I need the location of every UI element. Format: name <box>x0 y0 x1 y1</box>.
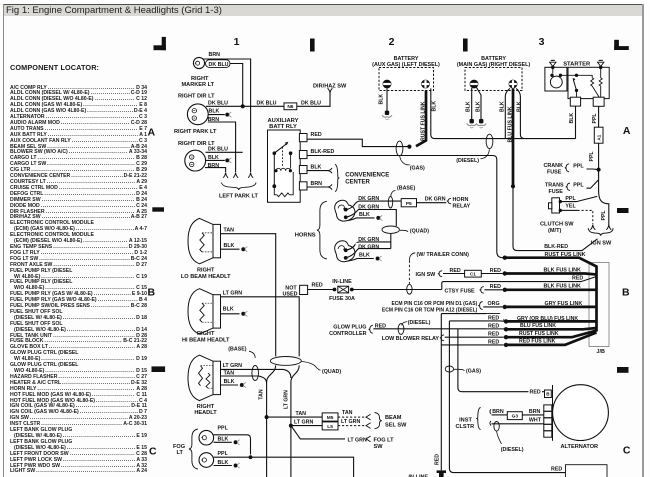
svg-text:RED: RED <box>434 454 440 465</box>
grid row label A right <box>623 125 631 137</box>
svg-text:RELAY: RELAY <box>453 203 471 209</box>
fusible link RUST FUS LINK row <box>503 252 597 267</box>
label (W/ TRAILER CONN) <box>409 252 469 261</box>
wire trailer conn drop <box>408 261 410 285</box>
svg-text:N6: N6 <box>287 104 293 110</box>
svg-text:CTSY FUSE: CTSY FUSE <box>445 289 476 295</box>
svg-text:BLK: BLK <box>359 253 370 259</box>
connector P5 <box>401 199 416 208</box>
brace HORNS <box>317 201 327 259</box>
label RED at alternator B <box>529 388 543 395</box>
svg-text:BRN: BRN <box>529 409 541 415</box>
svg-text:L5: L5 <box>327 424 333 430</box>
svg-text:DK GRN: DK GRN <box>358 244 379 250</box>
bulb RIGHT PARK LT / DIR LT (upper) <box>187 104 208 125</box>
wire BLK battery2 positive <box>431 88 576 138</box>
connector oval (DIESEL) on glow plug wire <box>398 320 430 335</box>
svg-text:DK GRN: DK GRN <box>425 197 446 203</box>
svg-text:INST: INST <box>459 418 472 424</box>
lamp RIGHT MARKER LT <box>182 57 215 88</box>
svg-text:DK BLU: DK BLU <box>208 147 228 153</box>
bus bar in J/B <box>595 266 598 332</box>
grid column label 1 <box>234 36 240 48</box>
wire DK GRN horn upper row1 <box>346 196 402 210</box>
svg-text:ECM PIN C16 OR PCM PIN D1 (GAS: ECM PIN C16 OR PCM PIN D1 (GAS) <box>391 301 477 307</box>
svg-text:GLOW PLUG: GLOW PLUG <box>333 325 366 331</box>
label CONVENIENCE CENTER <box>345 173 389 186</box>
label+wire TRANS FUSE <box>545 180 598 195</box>
svg-text:IN-LINE: IN-LINE <box>332 279 352 285</box>
svg-text:WHT: WHT <box>529 417 542 423</box>
svg-text:BLK: BLK <box>465 101 471 112</box>
svg-text:(DIESEL): (DIESEL) <box>456 158 479 164</box>
fusible link BLU FUS LINK row <box>486 322 597 331</box>
wire DK BLU from N6 to DIR/HAZ SW <box>297 88 333 106</box>
node junction RED / RUST FUS LINK <box>407 145 411 149</box>
grid tick mark left 2 <box>152 366 166 372</box>
brace LEFT PARK LT <box>222 183 257 191</box>
svg-text:LT GRN: LT GRN <box>223 291 242 297</box>
wire DK BLU of lower park bulb <box>206 147 243 153</box>
label BEAM SEL SW <box>385 415 407 428</box>
svg-text:G3: G3 <box>512 413 519 419</box>
wire BLK of upper park bulb <box>208 108 231 117</box>
starter solenoid box <box>545 66 609 107</box>
connector oval (DIESEL) on WHT wire <box>494 422 524 454</box>
fusible link RUST FUS LINK (battery to RED) <box>416 91 427 147</box>
svg-text:GRY FUS LINK: GRY FUS LINK <box>545 301 583 307</box>
svg-text:A: A <box>148 127 156 139</box>
svg-text:BLK: BLK <box>311 164 322 170</box>
svg-text:BLK: BLK <box>432 101 438 112</box>
svg-text:CLSTR: CLSTR <box>455 424 474 430</box>
svg-text:AUXILIARY: AUXILIARY <box>267 118 298 124</box>
wire DK GRN to horn relay <box>417 197 452 204</box>
svg-text:A1: A1 <box>597 134 603 140</box>
wire vertical through (GAS) oval to bottom box <box>449 321 565 473</box>
svg-text:RED: RED <box>311 132 322 138</box>
svg-text:IGN SW: IGN SW <box>416 272 437 278</box>
wire RED short (row6 feeder) <box>449 320 504 322</box>
svg-text:RIGHT DIR LT: RIGHT DIR LT <box>178 94 215 100</box>
fuse IN-LINE (bottom) <box>409 470 447 477</box>
svg-text:LT GRN: LT GRN <box>348 437 367 443</box>
grid corner mark top-left <box>154 37 166 50</box>
svg-text:BLU FUS LINK: BLU FUS LINK <box>507 106 513 142</box>
svg-text:BLK: BLK <box>516 101 522 112</box>
svg-text:A: A <box>623 125 631 137</box>
connector A1 <box>594 127 603 143</box>
svg-text:RIGHT: RIGHT <box>197 268 215 274</box>
wire vertical to in-line fuse (RED) <box>434 314 441 471</box>
label HORNS <box>295 233 316 239</box>
wire BLK-RED from aux batt rly to junction block <box>307 149 504 258</box>
svg-text:(GAS): (GAS) <box>466 368 481 374</box>
grid column label 2 <box>389 36 395 48</box>
svg-text:SEL SW: SEL SW <box>385 423 407 429</box>
svg-text:BLK-RED: BLK-RED <box>544 244 568 250</box>
wire DK GRN horn lower row2 <box>346 243 391 258</box>
wire RED row to GRY (OR BLU) FUS LINK <box>441 314 504 321</box>
svg-text:B: B <box>622 287 630 299</box>
label INST CLSTR <box>455 418 474 430</box>
svg-text:PPL: PPL <box>218 426 229 432</box>
connector oval (GAS) on RED wire <box>396 141 425 171</box>
svg-text:FOG: FOG <box>173 444 185 450</box>
svg-text:PPL: PPL <box>592 113 598 124</box>
label+wire CRANK FUSE <box>544 163 599 175</box>
svg-text:BLK: BLK <box>209 108 220 114</box>
svg-text:BRN: BRN <box>209 52 221 58</box>
svg-text:LT GRN: LT GRN <box>284 390 290 409</box>
svg-text:BLK: BLK <box>224 379 235 385</box>
label RIGHT DIR LT (lower) <box>178 141 215 147</box>
svg-text:FUSE: FUSE <box>547 170 562 176</box>
svg-text:ALTERNATOR: ALTERNATOR <box>561 444 599 450</box>
wire TAN trunk to bottom <box>259 365 276 477</box>
svg-text:C1: C1 <box>470 272 476 278</box>
ground battery3 a <box>467 119 477 128</box>
headlamp RIGHT HEADLT (dual) <box>188 355 221 416</box>
svg-text:BLU FUS LINK: BLU FUS LINK <box>520 323 556 329</box>
svg-text:DK BLU: DK BLU <box>257 101 277 107</box>
svg-text:BEAM: BEAM <box>385 415 402 421</box>
label RIGHT DIR LT (upper) <box>178 94 215 100</box>
svg-text:RED: RED <box>488 316 499 322</box>
wire PPL below A1 <box>589 143 609 224</box>
label IGN SW (top right) <box>591 241 612 247</box>
svg-text:LT: LT <box>177 450 184 456</box>
svg-text:TAN: TAN <box>224 228 235 234</box>
svg-text:(W/ TRAILER CONN): (W/ TRAILER CONN) <box>417 252 470 258</box>
svg-text:BLK: BLK <box>223 307 234 313</box>
fusible link RED FUS LINK row <box>486 333 597 348</box>
junction block J/B outline <box>589 263 609 356</box>
svg-text:TAN: TAN <box>296 411 307 417</box>
svg-text:PPL: PPL <box>573 163 584 169</box>
connector oval (QUAD) lower <box>270 357 341 375</box>
svg-text:3: 3 <box>539 36 545 48</box>
wire RED from fuse to J/B riser <box>352 289 442 291</box>
wire BLK fog upper <box>214 436 240 445</box>
connector oval (DIESEL) on BLK wire <box>456 134 493 164</box>
svg-text:BLK: BLK <box>359 212 370 218</box>
connector oval (BASE) lower <box>252 366 259 381</box>
svg-text:BLK: BLK <box>218 436 229 442</box>
ground battery3 b <box>476 119 486 128</box>
label ALTERNATOR <box>561 444 599 450</box>
wire DK GRN horn upper row2 <box>346 204 397 226</box>
svg-text:BATTERY: BATTERY <box>481 56 506 62</box>
svg-text:GRY (OR BLU) FUS LINK: GRY (OR BLU) FUS LINK <box>517 316 578 322</box>
svg-text:RIGHT: RIGHT <box>197 404 215 410</box>
wire LT GRN to connector L5 <box>291 419 371 430</box>
label FOG LT SW <box>374 438 395 450</box>
wire GLOW PLUG CONTROLLER RED feeder <box>329 324 506 338</box>
label FOG LT <box>173 444 185 456</box>
svg-text:RIGHT PARK LT: RIGHT PARK LT <box>174 129 217 135</box>
svg-text:RED: RED <box>488 332 499 338</box>
svg-text:C: C <box>623 445 631 457</box>
connector N6 <box>257 101 322 111</box>
svg-text:(GAS): (GAS) <box>410 165 425 171</box>
svg-text:PPL: PPL <box>573 183 584 189</box>
svg-text:LEFT PARK LT: LEFT PARK LT <box>219 193 259 199</box>
wire BLK of lower park bulb <box>206 155 232 163</box>
svg-text:TRANS: TRANS <box>545 183 564 189</box>
wire BLK from starter <box>569 106 575 139</box>
grid tick mark left 1 <box>152 207 164 211</box>
svg-text:LO BEAM HEADLT: LO BEAM HEADLT <box>181 274 231 280</box>
connector oval + wire DK BLU from marker lamp <box>206 60 243 107</box>
svg-text:STARTER: STARTER <box>563 61 591 67</box>
svg-text:MARKER LT: MARKER LT <box>182 82 215 88</box>
wire RED to in-line fuse <box>308 283 333 290</box>
svg-text:BATTERY: BATTERY <box>394 56 419 62</box>
wire DK BLU from right dir lt to junction and N6 <box>206 101 284 107</box>
brace IGN SW <box>588 228 613 236</box>
wire TAN from lo beam <box>221 228 276 357</box>
svg-text:CENTER: CENTER <box>345 180 370 186</box>
svg-text:RED FUS LINK: RED FUS LINK <box>519 339 556 345</box>
grid row label C right <box>623 445 631 457</box>
svg-text:B: B <box>148 287 156 299</box>
wire LT GRN to FOG LT SW <box>291 426 371 444</box>
wire RED row 8 feeder <box>441 344 504 346</box>
grid row label B left <box>148 287 156 299</box>
connector fork to IGN SW left <box>590 225 595 230</box>
svg-text:BATT RLY: BATT RLY <box>269 124 297 130</box>
ground battery2 <box>382 111 392 120</box>
headlamp RIGHT HI BEAM HEADLT <box>182 289 230 344</box>
svg-text:LT GRN: LT GRN <box>341 419 360 425</box>
svg-text:LT GRN: LT GRN <box>294 419 313 425</box>
switch CLUTCH SW (M/T) <box>540 196 597 234</box>
connector oval (QUAD) on horn wire <box>382 226 429 235</box>
terminal B of alternator <box>545 390 552 398</box>
svg-text:2: 2 <box>389 36 395 48</box>
svg-text:HORNS: HORNS <box>295 233 316 239</box>
fusible link BLK FUS LINK row (IGN SW) <box>503 267 597 275</box>
relay AUXILIARY BATT RLY <box>267 118 307 203</box>
svg-text:RED: RED <box>488 324 499 330</box>
fog lamp lower <box>199 453 214 468</box>
svg-text:RIGHT: RIGHT <box>197 331 215 337</box>
connector oval (BASE) on horn wire <box>388 185 415 208</box>
fuse IN-LINE FUSE 30A <box>329 279 355 302</box>
svg-text:(DIESEL): (DIESEL) <box>408 320 431 326</box>
grid column label 3 <box>539 36 545 48</box>
node fog PPL junction <box>249 455 253 459</box>
svg-text:M5: M5 <box>327 415 334 421</box>
node PPL junction <box>597 168 601 172</box>
label STARTER <box>563 61 591 67</box>
svg-text:BLK: BLK <box>499 101 505 112</box>
svg-text:BLK-RED: BLK-RED <box>311 149 335 155</box>
wire DK GRN horn lower row1 <box>346 235 391 250</box>
grid corner mark top-right <box>614 40 629 50</box>
grid tick mark right 2 <box>617 367 629 373</box>
svg-text:NOT: NOT <box>285 286 297 292</box>
svg-text:TAN: TAN <box>259 389 265 400</box>
fog lamp upper <box>199 430 214 445</box>
svg-text:HI BEAM HEADLT: HI BEAM HEADLT <box>182 337 230 343</box>
wire BLK from aux batt rly to convenience center <box>307 164 332 173</box>
wire BRN through connector G3 <box>490 409 544 420</box>
junction box (bottom right) <box>566 465 608 477</box>
svg-text:CLUTCH SW: CLUTCH SW <box>540 222 574 228</box>
svg-text:BLK: BLK <box>224 243 235 249</box>
svg-text:RED: RED <box>312 283 323 289</box>
wire BLK horn upper <box>348 212 382 221</box>
svg-text:SW: SW <box>374 444 384 450</box>
power feed arrow left <box>550 60 556 66</box>
svg-text:BLK FUS LINK: BLK FUS LINK <box>544 284 582 290</box>
wire RED from aux batt rly <box>307 132 408 147</box>
label HORN RELAY <box>453 197 471 209</box>
connector oval (GAS) lower <box>445 366 481 374</box>
svg-text:ECM PIN C16 OR TCM PIN A12 (DI: ECM PIN C16 OR TCM PIN A12 (DIESEL) <box>382 307 478 313</box>
label NOT USED + terminal <box>283 285 308 297</box>
svg-text:RUST FUS LINK: RUST FUS LINK <box>519 331 559 337</box>
node end of BLU FUS LINK <box>511 184 515 188</box>
svg-text:DK BLU: DK BLU <box>209 62 229 68</box>
wire LOW BLOWER RELAY feeder <box>382 335 504 342</box>
svg-text:BRN: BRN <box>492 409 504 415</box>
wire BLK from right headlt <box>220 379 246 388</box>
bulb RIGHT PARK LT / DIR LT (lower) <box>185 150 206 171</box>
svg-text:LOW BLOWER RELAY: LOW BLOWER RELAY <box>382 336 440 342</box>
svg-text:FUSE: FUSE <box>549 189 564 195</box>
svg-text:FUSE 30A: FUSE 30A <box>329 296 355 302</box>
grid row label A left <box>148 127 156 139</box>
svg-text:RED: RED <box>450 268 461 274</box>
svg-text:P5: P5 <box>406 201 412 207</box>
label (BASE) lower <box>228 347 255 358</box>
grid tick mark top 1 <box>310 39 315 52</box>
svg-text:HORN: HORN <box>453 197 469 203</box>
wire BLK battery3 positive right <box>516 88 524 138</box>
wire BLK-RED continuation to IGN SW <box>513 186 598 250</box>
svg-text:PPL: PPL <box>589 151 595 162</box>
switch IGN SW feed with connector C1 <box>416 268 503 278</box>
svg-text:PPL: PPL <box>218 451 229 457</box>
wire ORG from ECM <box>382 301 503 314</box>
brace BEAM SEL SW <box>375 413 382 429</box>
svg-text:(M/T): (M/T) <box>548 228 561 234</box>
svg-text:TAN: TAN <box>342 410 353 416</box>
svg-text:ORG: ORG <box>488 301 500 307</box>
svg-text:DIR/HAZ SW: DIR/HAZ SW <box>313 83 347 89</box>
svg-text:FOG LT: FOG LT <box>374 438 395 444</box>
wire BLK battery3 negative 1 <box>465 88 471 120</box>
wire BRN of upper park bulb <box>208 117 236 172</box>
wire PPL fog upper <box>214 426 251 455</box>
connector forks to LEFT PARK LT <box>223 173 253 178</box>
svg-text:RUST FUS LINK: RUST FUS LINK <box>545 252 586 258</box>
grid row label B right <box>622 287 630 299</box>
label RED at bottom right box <box>551 467 562 473</box>
wire BRN of lower park bulb <box>205 163 226 172</box>
alternator <box>553 385 609 441</box>
svg-text:RED: RED <box>530 390 541 396</box>
svg-text:(BASE): (BASE) <box>228 347 246 353</box>
wire BLK from hi beam <box>221 307 248 317</box>
svg-text:RED: RED <box>490 284 501 290</box>
wire PPL fog lower to bottom <box>214 451 354 477</box>
svg-text:RIGHT: RIGHT <box>191 76 209 82</box>
wire TAN from right headlt <box>220 371 267 383</box>
svg-text:HEADLT: HEADLT <box>194 410 217 416</box>
wire TAN to connector M5 <box>267 410 371 421</box>
svg-text:(QUAD): (QUAD) <box>322 369 341 375</box>
wire BLK from lo beam <box>221 243 248 252</box>
svg-text:BLK: BLK <box>569 113 575 124</box>
label PPL on ign feed <box>601 210 607 221</box>
svg-text:RED: RED <box>490 268 501 274</box>
node TAN junction <box>265 415 269 419</box>
svg-text:YEL: YEL <box>565 204 576 210</box>
svg-text:BLK: BLK <box>218 460 229 466</box>
brace INST CLSTR <box>476 408 480 430</box>
wire BLK battery2 negative to ground <box>378 88 387 111</box>
wire BRN from aux batt rly to convenience center <box>307 181 332 190</box>
horn lower <box>335 241 355 262</box>
svg-text:IGN SW: IGN SW <box>591 241 612 247</box>
label RIGHT PARK LT (upper) <box>174 129 217 135</box>
svg-text:RUST FUS LINK: RUST FUS LINK <box>421 101 427 141</box>
battery 3 (MAIN GAS)(RIGHT DIESEL) <box>457 56 531 91</box>
headlamp RIGHT LO BEAM HEADLT <box>181 218 231 280</box>
wire WHT to alternator <box>490 417 544 425</box>
wire BLK fog lower <box>214 460 240 468</box>
svg-text:CRANK: CRANK <box>544 163 564 169</box>
svg-text:(BASE): (BASE) <box>397 185 415 191</box>
svg-text:BLK FUS LINK: BLK FUS LINK <box>544 267 582 273</box>
connector fork to IGN SW right <box>606 225 611 230</box>
wire RED (in-line fuse to J/B) <box>442 276 597 290</box>
fusible link BLU FUS LINK from battery3 <box>507 88 513 186</box>
svg-text:BRN: BRN <box>311 181 323 187</box>
svg-text:(QUAD): (QUAD) <box>410 229 429 235</box>
wire vertical to alternator B <box>458 329 545 392</box>
terminal stack of alternator <box>544 405 552 437</box>
svg-text:PPL: PPL <box>601 210 607 221</box>
battery 2 (AUX GAS)(LEFT DIESEL) <box>372 56 440 91</box>
svg-text:J/B: J/B <box>597 349 605 355</box>
grid tick mark right 1 <box>617 208 629 213</box>
horn upper <box>335 200 355 221</box>
svg-text:BLK: BLK <box>378 94 384 105</box>
wire QUAD oval to lower horn rows <box>390 233 392 248</box>
node junction DK BLU <box>241 104 245 108</box>
svg-text:RED: RED <box>551 467 562 473</box>
wire BRN from marker lamp <box>204 52 251 172</box>
svg-text:C: C <box>149 446 157 458</box>
wire PPL starter to A1 <box>592 106 598 127</box>
brace FOG LT <box>189 429 198 469</box>
label LEFT PARK LT <box>219 193 259 199</box>
brace CONVENIENCE CENTER <box>335 165 339 192</box>
svg-text:1: 1 <box>234 36 240 48</box>
svg-text:CONTROLLER: CONTROLLER <box>329 331 367 337</box>
grid tick mark top 2 <box>463 39 468 52</box>
wire LT GRN trunk to bottom <box>284 365 300 477</box>
wire BLK horn lower <box>348 252 382 262</box>
fusible link BLK FUS LINK row (CTSY) <box>503 284 597 292</box>
wire LT GRN from right headlt <box>220 363 291 378</box>
wire LT GRN from hi beam <box>221 291 300 357</box>
